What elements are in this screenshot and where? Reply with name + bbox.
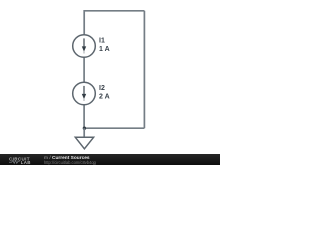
node junction dot — [83, 127, 86, 130]
svg-text:http://circuitlab.com/c8vb4qg: http://circuitlab.com/c8vb4qg — [44, 160, 97, 165]
footer bar — [0, 154, 220, 165]
wire top — [84, 10, 144, 12]
wire I2 to junction — [83, 105, 85, 129]
current source I1 — [73, 35, 96, 58]
wire between I1 and I2 — [83, 57, 85, 82]
current source I2 — [73, 82, 96, 105]
svg-text:LAB: LAB — [21, 160, 31, 165]
wire right — [143, 11, 145, 128]
wire left upper — [83, 10, 85, 35]
CircuitLab logo — [0, 0, 220, 165]
wire bottom — [84, 127, 144, 129]
ground — [75, 137, 93, 149]
ground stub wire — [83, 128, 85, 137]
